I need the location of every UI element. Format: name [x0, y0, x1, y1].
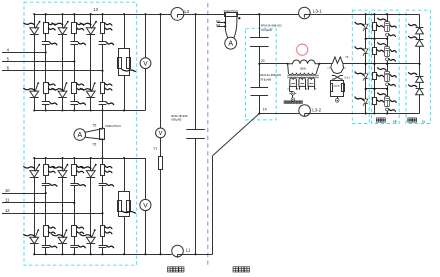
svg-text:L3-1: L3-1	[313, 8, 322, 13]
thyristor (bridge1 top row, unit 1)	[34, 14, 36, 28]
svg-text:A: A	[77, 132, 82, 139]
svg-text:20: 20	[261, 59, 265, 63]
inverter damping resistor (row 2)	[374, 39, 376, 48]
freewheel diode (D3)	[416, 76, 424, 78]
shunt 1500A/75mV	[100, 129, 105, 140]
snubber resistor (bridge1 top row, unit 1)	[45, 14, 47, 22]
phase input line 4	[2, 52, 46, 54]
rectifier section dashed enclosure	[24, 2, 137, 265]
wire: inverter row connector	[366, 38, 387, 40]
snubber capacitor (bridge2 bottom row, unit 3)	[102, 237, 104, 245]
tap 202	[217, 26, 225, 28]
voltmeter V2 (DC link)	[156, 128, 166, 138]
label inverter XB	[376, 118, 380, 122]
svg-text:14: 14	[263, 107, 267, 111]
secondary winding 1	[290, 78, 297, 86]
thyristor (bridge1 bottom row, unit 3)	[86, 91, 95, 98]
inverter snubber dashed enclosure XB	[372, 10, 400, 123]
wire: bottom-left DC bus	[34, 254, 172, 256]
svg-text:11: 11	[5, 198, 10, 203]
wire: bridge1 bottom bus	[34, 110, 145, 112]
inductor L3-1	[299, 7, 311, 19]
freewheel diode (D4)	[416, 88, 424, 90]
snubber capacitor (bridge1 top row, unit 1)	[45, 34, 47, 42]
svg-text:13: 13	[93, 7, 98, 12]
snubber resistor (bridge2 top row, unit 1)	[45, 158, 47, 165]
snubber capacitor (bridge1 top row, unit 2)	[74, 34, 76, 42]
freewheel diode (D2)	[416, 39, 424, 41]
wire: bottom bus L1 to corner	[178, 254, 213, 256]
snubber resistor (bridge2 bottom row, unit 3)	[101, 226, 105, 237]
wire: shunt column	[102, 111, 104, 129]
current transformer shield	[331, 64, 344, 74]
wire: filter capacitor branch	[195, 14, 197, 129]
svg-text:900µXB: 900µXB	[171, 118, 181, 122]
inverter thyristor (row 3)	[365, 64, 367, 74]
balancing resistor assembly	[124, 158, 126, 192]
inverter RC snubber (row 2)	[387, 39, 389, 47]
wire: snubber column to phase line unit 3 bridge2	[102, 186, 104, 226]
wire: voltmeter V3 column	[145, 158, 147, 199]
wire: shunt left lead down	[225, 14, 227, 27]
inverter damping resistor (row 1)	[374, 14, 376, 23]
thyristor (bridge2 bottom row, unit 1)	[30, 237, 39, 244]
wire: top bus L2 to shunt	[177, 14, 225, 16]
thyristor (bridge1 bottom row, unit 2)	[58, 91, 67, 98]
rectifier/inverter divider dashed line	[207, 3, 209, 268]
snubber capacitor (bridge1 top row, unit 3)	[102, 34, 104, 42]
secondary winding 2	[299, 78, 306, 86]
ammeter A1 leads	[85, 129, 102, 133]
wire: snubber column to phase line unit 2	[74, 44, 76, 82]
svg-text:L1: L1	[186, 248, 191, 253]
svg-text:78.6µH/B: 78.6µH/B	[261, 28, 272, 32]
inductor L2	[171, 7, 184, 20]
inductor L3-2	[299, 105, 311, 117]
snubber resistor (bridge2 top row, unit 3)	[102, 158, 104, 165]
svg-text:78.6µH/B: 78.6µH/B	[260, 77, 271, 81]
svg-text:T6: T6	[93, 142, 97, 146]
CT core crossover	[332, 76, 343, 80]
wire: voltmeter V1 column	[145, 14, 147, 58]
svg-text:T7: T7	[153, 147, 157, 151]
freewheel diode dashed enclosure XL	[406, 10, 430, 123]
resistor T7	[159, 157, 163, 170]
snubber resistor (bridge1 top row, unit 2)	[74, 14, 76, 22]
terminal mark 8	[238, 17, 240, 19]
svg-text:L2: L2	[184, 9, 190, 14]
svg-text:A: A	[228, 41, 233, 48]
thyristor (bridge2 top row, unit 3)	[90, 158, 92, 171]
wire: L3-1 to inverter top corner	[304, 14, 419, 16]
phase input line 5	[2, 61, 74, 63]
wire: capacitor bank column	[259, 14, 261, 37]
svg-text:V: V	[143, 202, 148, 209]
secondary winding 3	[308, 78, 315, 86]
wire: snubber column to phase line unit 3	[102, 44, 104, 82]
svg-text:RFM-3A-3NB-625: RFM-3A-3NB-625	[261, 23, 282, 27]
thyristor (bridge1 top row, unit 2)	[62, 14, 64, 28]
svg-text:J6: J6	[315, 88, 317, 90]
svg-text:10: 10	[5, 188, 10, 193]
inductor L1	[172, 245, 184, 257]
svg-text:500A/75mV: 500A/75mV	[224, 9, 239, 13]
snubber resistor (bridge2 bottom row, unit 1)	[44, 226, 49, 237]
wire: bridge2 top bus	[34, 158, 145, 160]
snubber resistor (bridge2 bottom row, unit 2)	[72, 226, 77, 237]
wire: top DC bus	[34, 14, 171, 16]
tap 201	[217, 22, 225, 24]
wire: coil to CT	[319, 63, 332, 65]
label inverter bridge	[233, 267, 238, 272]
svg-text:V: V	[143, 61, 148, 68]
svg-text:201: 201	[216, 19, 221, 23]
capacitor bank C2	[251, 87, 269, 89]
snubber capacitor (bridge2 top row, unit 3)	[102, 176, 104, 184]
svg-text:J3: J3	[296, 88, 298, 90]
ammeter A2	[225, 37, 237, 49]
wire: thyristor column unit 1 bridge1	[34, 34, 36, 91]
svg-text:CA2: CA2	[337, 85, 341, 88]
node 14	[258, 112, 260, 114]
wire: corner up to diagonal	[212, 156, 214, 255]
phase input line 11	[2, 202, 74, 204]
wire: snubber column to phase line unit 1	[45, 44, 47, 82]
sampling connector	[289, 90, 291, 92]
inverter damping resistor (row 3)	[374, 64, 376, 73]
svg-text:202: 202	[216, 23, 221, 27]
wire: snubber column to phase line unit 1 bridge2	[45, 186, 47, 226]
inverter thyristor (row 4)	[365, 89, 367, 99]
wire: inverter row connector	[366, 88, 387, 90]
wire: diagonal to node 14	[213, 114, 260, 156]
thyristor (bridge2 top row, unit 1)	[34, 158, 36, 171]
svg-text:12: 12	[5, 208, 10, 213]
phase input line 12	[2, 213, 103, 215]
wire: node20 rail to furnace coil	[259, 63, 287, 65]
wire: shunt to L3-1	[237, 14, 299, 16]
wire: thyristor column unit 2 bridge1	[62, 34, 64, 91]
balancing resistor assembly	[124, 14, 126, 49]
wire: node14 rail to L3-2	[259, 113, 299, 115]
thyristor (bridge2 bottom row, unit 2)	[58, 237, 67, 244]
svg-text:60kW: 60kW	[300, 69, 307, 71]
voltmeter V1 (bridge1)	[140, 58, 151, 69]
wire: CT to inverter mid	[343, 63, 420, 65]
freewheel diode (D1)	[416, 27, 424, 29]
wire: snubber column to phase line unit 2 bridge2	[74, 186, 76, 226]
transformer core	[287, 75, 318, 77]
svg-text:XL: XL	[422, 119, 426, 123]
inverter RC snubber (row 3)	[387, 64, 389, 72]
capacitor bank dashed enclosure	[245, 28, 276, 120]
svg-text:T5: T5	[93, 124, 97, 128]
snubber capacitor (bridge2 bottom row, unit 2)	[74, 237, 76, 245]
svg-text:J5: J5	[305, 88, 307, 90]
voltmeter V3 (bridge2)	[140, 199, 151, 210]
label rectifier bridge	[168, 267, 173, 272]
svg-text:L3-2: L3-2	[312, 108, 321, 113]
furnace coil / transformer primary	[288, 60, 320, 64]
phase input line 6	[2, 70, 103, 72]
snubber capacitor (bridge2 top row, unit 2)	[74, 176, 76, 184]
wire: freewheel diode column	[419, 14, 421, 113]
inverter thyristor (row 2)	[365, 39, 367, 49]
label MF voltage sampling	[284, 101, 287, 104]
inverter RC snubber (row 4)	[387, 89, 389, 97]
svg-text:J1: J1	[287, 88, 289, 90]
ammeter A2 leads	[225, 27, 228, 38]
CT ground connector	[337, 96, 339, 98]
svg-text:V: V	[158, 131, 162, 137]
red highlight circle	[297, 44, 308, 55]
ammeter A1	[74, 129, 86, 141]
snubber resistor (bridge1 top row, unit 3)	[102, 14, 104, 22]
svg-text:XB: XB	[393, 119, 397, 123]
svg-text:5-0.1: 5-0.1	[345, 76, 351, 79]
inverter RC snubber (row 1)	[387, 14, 389, 22]
thyristor (bridge1 top row, unit 3)	[90, 14, 92, 28]
inverter thyristor (row 1)	[365, 14, 367, 24]
thyristor (bridge2 top row, unit 2)	[62, 158, 64, 171]
snubber resistor (bridge1 bottom row, unit 1)	[44, 83, 49, 94]
phase input line 10	[2, 193, 46, 195]
snubber capacitor (bridge1 bottom row, unit 3)	[102, 94, 104, 102]
wire: L3-2 to inverter bottom	[305, 113, 420, 115]
current transformer primary peaks	[332, 57, 343, 64]
capacitor bank C1	[250, 37, 269, 39]
svg-text:RFM-3A-3NB-625: RFM-3A-3NB-625	[260, 73, 281, 77]
thyristor (bridge2 bottom row, unit 3)	[86, 237, 95, 244]
snubber resistor (bridge2 top row, unit 2)	[74, 158, 76, 165]
wire: DC voltmeter branch	[160, 14, 162, 128]
snubber capacitor (bridge1 bottom row, unit 1)	[45, 94, 47, 102]
snubber capacitor (bridge1 bottom row, unit 2)	[74, 94, 76, 102]
inverter damping resistor (row 4)	[374, 89, 376, 98]
capacitor DC link	[186, 129, 205, 131]
label freewheel XL	[408, 118, 412, 122]
shunt 500A/75mV	[224, 13, 226, 15]
wire: thyristor column unit 3 bridge1	[90, 34, 92, 91]
snubber capacitor (bridge2 top row, unit 1)	[45, 176, 47, 184]
snubber resistor (bridge1 bottom row, unit 3)	[101, 83, 105, 94]
inverter thyristor-module dashed enclosure	[352, 10, 369, 123]
CT burden box	[331, 81, 344, 97]
snubber resistor (bridge1 bottom row, unit 2)	[72, 83, 77, 94]
snubber capacitor (bridge2 bottom row, unit 1)	[45, 237, 47, 245]
node 20	[258, 63, 260, 65]
thyristor (bridge1 bottom row, unit 1)	[30, 91, 39, 98]
svg-text:1500A/75mV: 1500A/75mV	[105, 124, 121, 128]
